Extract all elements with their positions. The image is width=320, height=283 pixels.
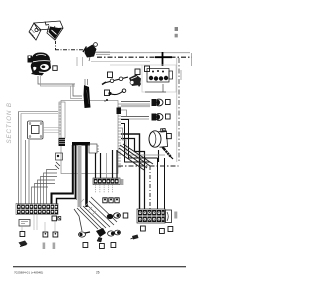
svg-text:26: 26 [96, 271, 100, 275]
svg-text:7025884-01 (+4894E): 7025884-01 (+4894E) [14, 271, 43, 275]
svg-text:SECTION B: SECTION B [6, 102, 13, 143]
